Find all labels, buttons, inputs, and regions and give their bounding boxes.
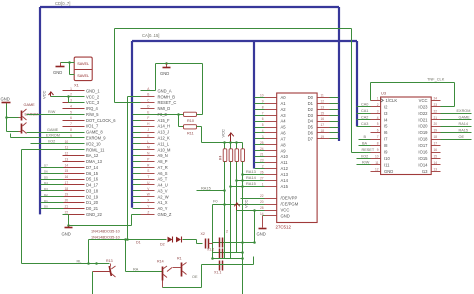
- wire U3 OE: [441, 139, 472, 141]
- wire RL: [22, 263, 110, 265]
- svg-text:D: D: [147, 105, 150, 109]
- wire GND to Q2 base: [7, 118, 19, 132]
- ground GND top middle: [160, 62, 171, 76]
- transistor Q4: [157, 260, 167, 288]
- svg-text:13: 13: [65, 157, 69, 161]
- svg-text:A0_Y: A0_Y: [158, 206, 168, 211]
- svg-text:A3: A3: [281, 113, 287, 118]
- supply VCC ROM arrow: [234, 199, 248, 210]
- svg-text:13: 13: [434, 167, 438, 171]
- resistor R7: [241, 143, 245, 162]
- svg-text:24: 24: [434, 96, 438, 100]
- svg-text:N: N: [147, 152, 150, 156]
- wire R11 left: [179, 115, 184, 127]
- wire GND_A rail: [156, 63, 203, 65]
- svg-text:26: 26: [260, 171, 264, 175]
- svg-text:A8_P: A8_P: [158, 159, 168, 164]
- svg-text:A2_W: A2_W: [158, 194, 169, 199]
- value label R4: [219, 156, 223, 160]
- svg-text:/CE/PGM: /CE/PGM: [281, 202, 299, 207]
- wire RESET to pin C: [115, 29, 141, 103]
- svg-text:R11: R11: [187, 131, 194, 135]
- svg-text:22: 22: [260, 194, 264, 198]
- svg-text:20: 20: [434, 122, 438, 126]
- svg-text:12: 12: [65, 152, 69, 156]
- svg-text:X: X: [147, 199, 150, 203]
- net label CA3: [361, 122, 368, 126]
- wire ROMH_B: [128, 97, 141, 240]
- svg-text:A7: A7: [281, 136, 287, 141]
- svg-text:X1: X1: [74, 83, 80, 88]
- svg-text:IO14: IO14: [418, 162, 428, 167]
- svg-text:4: 4: [70, 105, 72, 109]
- junction RA14: [235, 179, 244, 182]
- svg-text:RA: RA: [133, 267, 139, 271]
- svg-text:6: 6: [262, 117, 264, 121]
- svg-text:CA2: CA2: [361, 116, 368, 120]
- svg-text:GND: GND: [160, 71, 169, 76]
- wire RESET down right: [351, 29, 353, 153]
- svg-text:A5_T: A5_T: [158, 177, 168, 182]
- svg-text:8: 8: [70, 128, 72, 132]
- wire CA1: [357, 113, 371, 115]
- svg-text:EXROM_9: EXROM_9: [86, 136, 106, 141]
- svg-text:A9_N: A9_N: [158, 153, 168, 158]
- wire VCC rail: [202, 142, 243, 144]
- svg-text:R14: R14: [157, 260, 164, 264]
- svg-text:D2: D2: [44, 193, 48, 197]
- junction cap row1: [241, 241, 256, 244]
- svg-text:R/W: R/W: [362, 161, 370, 165]
- svg-text:RA14: RA14: [246, 175, 257, 180]
- svg-text:22: 22: [434, 109, 438, 113]
- svg-text:S: S: [147, 169, 149, 173]
- net label RL: [77, 260, 82, 264]
- svg-text:15: 15: [321, 111, 325, 115]
- wire U3 RA15: [441, 132, 472, 134]
- junction rail 1: [223, 141, 226, 144]
- svg-text:TNF_CLK: TNF_CLK: [427, 77, 445, 82]
- svg-text:21: 21: [434, 116, 438, 120]
- svg-text:BA: BA: [362, 141, 368, 145]
- wires CD7-CD0 bus to pins 14-21: [41, 164, 64, 209]
- wire VCC ROM down: [254, 211, 256, 243]
- part name X1: [74, 83, 80, 88]
- svg-text:IO23: IO23: [418, 104, 428, 109]
- wire GND to Q1 base: [7, 104, 19, 118]
- svg-text:D4: D4: [44, 181, 48, 185]
- resistor R6: [235, 143, 239, 162]
- svg-text:27: 27: [260, 176, 264, 180]
- svg-text:D6_15: D6_15: [86, 171, 99, 176]
- svg-text:A9: A9: [281, 148, 287, 153]
- ground GND bottom left: [62, 226, 73, 237]
- value label 1N4148 D1: [91, 230, 120, 234]
- svg-text:RA15: RA15: [246, 181, 256, 186]
- supply VCC left arrow: [42, 90, 54, 99]
- svg-text:RA15: RA15: [201, 185, 211, 190]
- net label OE: [192, 275, 198, 279]
- wire SAVEL upper: [61, 62, 75, 64]
- svg-text:7: 7: [262, 111, 264, 115]
- IC IC1 body: [277, 93, 317, 223]
- svg-text:22: 22: [65, 210, 69, 214]
- wire SAVEL lower: [70, 63, 75, 75]
- svg-text:1: 1: [377, 96, 379, 100]
- svg-text:GND_22: GND_22: [86, 212, 103, 217]
- IC1 data pins D0-D7: [308, 94, 330, 142]
- svg-text:9: 9: [377, 148, 379, 152]
- ground GND at SAVEL: [53, 63, 65, 76]
- svg-text:CA[0..15]: CA[0..15]: [142, 33, 159, 38]
- svg-text:D1_20: D1_20: [86, 200, 99, 205]
- svg-text:A11: A11: [281, 160, 289, 165]
- bus CD[0..7] left vertical: [39, 7, 41, 214]
- wire R/W to pin 5: [27, 114, 85, 116]
- svg-text:VCC: VCC: [281, 208, 290, 213]
- wire cap row 1: [213, 242, 255, 244]
- svg-text:10: 10: [375, 155, 379, 159]
- svg-text:18: 18: [321, 129, 325, 133]
- svg-text:D3: D3: [308, 113, 314, 118]
- wire R11 right down: [197, 127, 202, 143]
- svg-text:GAME: GAME: [24, 103, 36, 107]
- svg-text:5: 5: [70, 110, 72, 114]
- net label RA13: [246, 169, 256, 174]
- svg-text:VCC: VCC: [244, 199, 249, 208]
- svg-text:11: 11: [375, 161, 379, 165]
- svg-text:5: 5: [262, 123, 264, 127]
- junction VCC ROM: [253, 209, 256, 212]
- label D2: [160, 243, 165, 247]
- svg-text:CA0: CA0: [361, 103, 368, 107]
- svg-text:GND_1: GND_1: [86, 88, 100, 93]
- svg-text:D7_14: D7_14: [86, 165, 99, 170]
- wire pin8 BA: [359, 141, 371, 145]
- wires CD0-CD7 IC1 to bus: [330, 98, 339, 139]
- svg-text:6: 6: [70, 116, 72, 120]
- connector X1 numeric pins 1-22: [63, 87, 117, 217]
- wire Q3 emitter down: [92, 272, 94, 294]
- svg-text:A12_K: A12_K: [158, 136, 171, 141]
- wire ROMH to Q4: [124, 238, 162, 271]
- wire cap row 4: [202, 257, 254, 265]
- U3 right pins 24-13: [418, 96, 440, 173]
- svg-text:12: 12: [321, 99, 325, 103]
- transistor Q2 EXROM: [19, 113, 39, 134]
- junction GND rail: [67, 224, 70, 227]
- svg-text:D3: D3: [44, 187, 48, 191]
- svg-text:A10_M: A10_M: [158, 147, 172, 152]
- svg-text:3: 3: [377, 109, 379, 113]
- wire GAME to pin 8: [27, 132, 85, 134]
- svg-text:D5: D5: [44, 175, 48, 179]
- svg-text:GND: GND: [281, 213, 290, 218]
- svg-text:GND_A: GND_A: [158, 88, 172, 93]
- svg-text:W: W: [147, 193, 150, 197]
- svg-text:14: 14: [434, 161, 438, 165]
- wire GND rail: [69, 225, 132, 227]
- IC1 control pins: [260, 194, 299, 218]
- svg-text:7: 7: [377, 135, 379, 139]
- svg-text:DOT_CLOCK_6: DOT_CLOCK_6: [86, 118, 116, 123]
- svg-text:19: 19: [434, 129, 438, 133]
- svg-text:B: B: [364, 135, 367, 139]
- svg-text:D5: D5: [308, 125, 314, 130]
- wire RESET top: [115, 28, 352, 30]
- bus CD[0..7] right vertical: [338, 7, 340, 141]
- junction F0 cross: [223, 203, 226, 206]
- wire cap row 2: [213, 252, 243, 254]
- svg-text:A13_J: A13_J: [158, 130, 170, 135]
- svg-text:16: 16: [65, 175, 69, 179]
- net label R/W: [48, 110, 56, 114]
- svg-text:R4: R4: [219, 156, 223, 160]
- svg-text:I/O2_10: I/O2_10: [86, 141, 101, 146]
- svg-text:VCC: VCC: [221, 129, 226, 138]
- transistor Q5: [167, 257, 187, 277]
- IC1 address pins A0-A15: [260, 94, 289, 189]
- svg-text:/OE/VPP: /OE/VPP: [281, 196, 298, 201]
- wire RA15 stub left: [197, 190, 225, 192]
- svg-text:DMA_13: DMA_13: [86, 159, 103, 164]
- svg-text:NMI_D: NMI_D: [158, 106, 171, 111]
- svg-text:D0: D0: [308, 95, 314, 100]
- svg-text:H: H: [147, 122, 150, 126]
- svg-text:1/CLK: 1/CLK: [386, 98, 398, 103]
- svg-text:CD[0..7]: CD[0..7]: [55, 1, 70, 6]
- svg-text:A4_U: A4_U: [158, 183, 168, 188]
- svg-text:GND: GND: [62, 232, 71, 237]
- svg-text:19: 19: [321, 135, 325, 139]
- svg-text:A14_H: A14_H: [158, 124, 171, 129]
- svg-text:IO21: IO21: [418, 117, 428, 122]
- junction cap row2: [241, 251, 244, 254]
- wire RESET to U3: [352, 148, 375, 153]
- svg-text:A14: A14: [281, 178, 289, 183]
- svg-text:14: 14: [65, 163, 69, 167]
- svg-text:17: 17: [65, 181, 69, 185]
- svg-text:A3_V: A3_V: [158, 189, 168, 194]
- svg-text:R1: R1: [177, 257, 182, 261]
- diode D1: [168, 237, 173, 243]
- svg-text:R: R: [147, 163, 150, 167]
- net label RA: [133, 267, 139, 271]
- junction RL 2: [95, 262, 98, 265]
- svg-text:A10: A10: [281, 154, 289, 159]
- net label CA1: [361, 109, 368, 113]
- svg-text:15: 15: [65, 169, 69, 173]
- svg-text:D1: D1: [308, 101, 314, 106]
- svg-text:I11: I11: [384, 162, 390, 167]
- svg-text:RA14: RA14: [459, 122, 469, 126]
- wire VCC_3: [69, 97, 85, 103]
- svg-text:6: 6: [377, 129, 379, 133]
- svg-text:C: C: [147, 99, 150, 103]
- svg-text:A1: A1: [281, 101, 287, 106]
- svg-text:12: 12: [375, 167, 379, 171]
- bus CA[0..15] horizontal: [132, 40, 357, 42]
- svg-text:8: 8: [262, 105, 264, 109]
- svg-text:16: 16: [434, 148, 438, 152]
- svg-text:GND: GND: [257, 232, 266, 237]
- svg-text:D1: D1: [136, 241, 141, 245]
- wires CA15-CA0 bus to letter pins: [133, 121, 141, 209]
- wire RA15: [231, 186, 265, 188]
- net label CA0: [361, 103, 368, 107]
- net label U3 RA15: [459, 129, 469, 133]
- capacitor X1.3: [220, 230, 229, 248]
- label D1: [136, 241, 141, 245]
- svg-text:VCC: VCC: [42, 90, 47, 99]
- ground GND at IC1: [257, 216, 267, 237]
- svg-text:D6: D6: [308, 131, 314, 136]
- svg-text:GND: GND: [384, 169, 393, 174]
- svg-text:27C512: 27C512: [276, 225, 292, 230]
- wire diode out: [183, 240, 203, 244]
- svg-text:A2: A2: [281, 107, 287, 112]
- wire R5 lead down: [230, 162, 232, 259]
- svg-text:EXROM: EXROM: [46, 134, 60, 138]
- junction rail 2: [229, 141, 232, 144]
- svg-text:I/O1_7: I/O1_7: [86, 124, 99, 129]
- svg-text:X2: X2: [201, 232, 205, 236]
- net label CA2: [361, 116, 368, 120]
- svg-text:IO15: IO15: [418, 156, 428, 161]
- net label RA15: [246, 181, 256, 186]
- svg-text:RESET_C: RESET_C: [158, 100, 177, 105]
- switch S1 SAVEL box: [74, 57, 92, 81]
- wire R10 right up: [197, 64, 203, 115]
- svg-text:A6_S: A6_S: [158, 171, 168, 176]
- svg-text:A5: A5: [281, 125, 287, 130]
- bus CA[0..15] mid vertical: [253, 41, 255, 169]
- wire TNF_CLK loop: [371, 83, 455, 107]
- net label F0: [213, 199, 218, 204]
- resistor R5: [229, 143, 233, 162]
- net label RA15 left: [201, 185, 211, 190]
- svg-text:IO22: IO22: [418, 111, 428, 116]
- svg-text:EXROM: EXROM: [457, 109, 471, 113]
- svg-text:A11_L: A11_L: [158, 141, 170, 146]
- bus CA[0..15] right vertical: [356, 41, 358, 126]
- svg-text:OE: OE: [459, 135, 465, 139]
- svg-text:CA3: CA3: [361, 122, 368, 126]
- bus CA[0..15] left vertical: [131, 41, 133, 208]
- resistor R11: [184, 125, 197, 136]
- wire F0 to CE: [213, 205, 265, 259]
- transistor Q3: [93, 259, 116, 277]
- svg-text:15: 15: [434, 155, 438, 159]
- svg-text:A6: A6: [281, 131, 287, 136]
- wire F0_E to R10: [133, 114, 184, 116]
- svg-text:I10: I10: [384, 156, 390, 161]
- svg-text:IO17: IO17: [418, 143, 428, 148]
- wire I/O2 to pin 10: [31, 143, 85, 145]
- wire CA2: [357, 119, 371, 121]
- svg-text:A4: A4: [281, 119, 287, 124]
- svg-text:A12: A12: [281, 166, 289, 171]
- svg-text:X1.2: X1.2: [207, 248, 214, 252]
- svg-text:R13: R13: [106, 259, 113, 263]
- svg-text:GAME: GAME: [47, 128, 59, 132]
- svg-text:BA_12: BA_12: [86, 153, 99, 158]
- junction RA13: [241, 173, 244, 176]
- resistor R10: [184, 112, 197, 123]
- svg-text:5: 5: [377, 122, 379, 126]
- svg-text:F0: F0: [213, 199, 218, 204]
- junction cap row3: [211, 257, 244, 260]
- svg-text:A15: A15: [281, 184, 289, 189]
- value label 1N4148 D2: [91, 236, 120, 240]
- wire RA14: [237, 180, 265, 182]
- svg-text:D6: D6: [44, 169, 48, 173]
- svg-text:18: 18: [434, 135, 438, 139]
- value label 27C512: [276, 225, 292, 230]
- wire GND pin 22 down: [63, 215, 69, 226]
- svg-text:D5_16: D5_16: [86, 177, 99, 182]
- svg-text:D0: D0: [44, 205, 48, 209]
- svg-text:13: 13: [321, 105, 325, 109]
- svg-text:E: E: [147, 110, 149, 114]
- svg-text:D7: D7: [44, 164, 48, 168]
- svg-text:B: B: [147, 93, 149, 97]
- svg-text:9: 9: [262, 99, 264, 103]
- svg-text:11: 11: [321, 94, 325, 98]
- junction ROMH diode: [126, 238, 129, 241]
- wire CA0: [357, 106, 371, 108]
- wire R7 lead down: [242, 162, 244, 294]
- bus label CD[0..7]: [55, 1, 70, 6]
- junction SAVEL: [68, 61, 71, 64]
- net label EXROM: [46, 134, 60, 138]
- resistor R4: [223, 143, 227, 162]
- net label I/O2: [48, 140, 55, 144]
- wire OE to IC1: [241, 198, 265, 200]
- svg-text:X1.1: X1.1: [214, 271, 221, 275]
- net label GAME: [47, 128, 59, 132]
- svg-text:D7: D7: [308, 136, 314, 141]
- svg-text:20: 20: [65, 199, 69, 203]
- part name U3: [381, 91, 387, 96]
- wire EXROM to pin 9: [11, 134, 85, 138]
- svg-text:U3: U3: [381, 91, 387, 96]
- svg-text:IO18: IO18: [418, 137, 428, 142]
- svg-text:VCC_3: VCC_3: [86, 100, 100, 105]
- ground GND at transistors: [1, 97, 11, 104]
- wire GND_A up: [141, 64, 156, 91]
- svg-text:A0: A0: [281, 95, 287, 100]
- junction RL 1: [87, 262, 90, 265]
- svg-text:SAVEL: SAVEL: [77, 74, 89, 78]
- capacitor X1.1: [214, 261, 223, 275]
- wire bottom OE: [163, 265, 202, 288]
- wire U3 GAME: [441, 119, 472, 121]
- svg-text:VCC: VCC: [419, 98, 428, 103]
- svg-text:1N4148DO35-10: 1N4148DO35-10: [91, 230, 120, 234]
- svg-text:1: 1: [262, 182, 264, 186]
- svg-text:ROMH_B: ROMH_B: [158, 94, 176, 99]
- svg-text:A15_F: A15_F: [158, 118, 171, 123]
- svg-text:RESET: RESET: [362, 148, 375, 152]
- transistor Q1 GAME: [19, 103, 36, 120]
- svg-text:IRQ_4: IRQ_4: [86, 106, 99, 111]
- svg-text:GND: GND: [53, 70, 62, 75]
- junction GND-Q1: [5, 116, 8, 119]
- wire U3 EXROM: [441, 113, 472, 115]
- wire ROML pin 11: [22, 150, 85, 264]
- junction RA15 stub: [223, 189, 226, 192]
